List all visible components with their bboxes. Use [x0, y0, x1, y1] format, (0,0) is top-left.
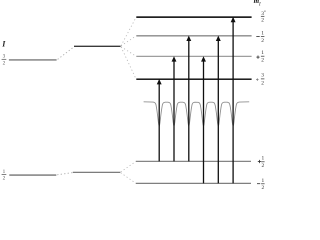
ground level mI=-1/2	[136, 182, 251, 184]
excited unperturbed level	[9, 59, 57, 61]
svg-text:2: 2	[261, 58, 264, 64]
left fraction 3/2 (excited state spin)	[3, 54, 6, 67]
transition arrow 6 (-1/2 to -3/2)	[231, 17, 236, 184]
label +3/2	[261, 73, 264, 87]
svg-text:1: 1	[261, 31, 264, 37]
svg-text:2: 2	[3, 176, 6, 182]
level mI=+3/2	[136, 78, 251, 80]
ground unperturbed level	[9, 174, 56, 176]
fan dash to mI=+1/2 ground	[121, 162, 136, 172]
label +1/2 ground	[261, 155, 264, 169]
sextet spectrum curve	[144, 102, 250, 126]
svg-text:1: 1	[261, 155, 264, 161]
left fraction 1/2 (ground state spin)	[3, 169, 6, 182]
svg-text:2: 2	[261, 18, 264, 24]
dashed shift line (excited isomer shift)	[58, 47, 74, 59]
excited shifted level	[74, 45, 121, 47]
fan dash to mI=-1/2 ground	[121, 173, 136, 184]
transition arrow 5 (-1/2 to -1/2)	[216, 36, 221, 184]
transition arrow 2 (+1/2 to +1/2)	[172, 56, 177, 161]
svg-text:I: I	[258, 2, 261, 7]
svg-text:2: 2	[261, 38, 264, 44]
level mI=+1/2	[136, 55, 251, 57]
svg-text:2: 2	[3, 60, 6, 66]
fan dash to mI=+3/2	[121, 47, 136, 79]
svg-text:2: 2	[261, 163, 264, 169]
svg-text:1: 1	[261, 178, 264, 184]
fraction bar 1/2	[2, 173, 7, 175]
transition arrow 3 (+1/2 to -1/2)	[186, 36, 191, 162]
dashed shift line (ground isomer shift)	[57, 173, 72, 175]
fraction bar 3/2	[2, 58, 7, 60]
transition arrow 1 (+1/2 to +3/2)	[157, 79, 162, 161]
ground shifted level	[73, 171, 121, 173]
svg-text:2: 2	[261, 185, 264, 189]
fan dash to mI=-3/2	[121, 17, 136, 45]
transition arrow 4 (-1/2 to +1/2)	[201, 56, 206, 183]
label -1/2	[261, 31, 264, 44]
fan dash to mI=+1/2	[121, 47, 136, 57]
svg-text:1: 1	[261, 50, 264, 56]
svg-text:I: I	[1, 40, 6, 49]
label -3/2	[261, 11, 264, 24]
label -1/2 ground	[261, 178, 264, 191]
level mI=-1/2	[136, 35, 251, 37]
svg-text:2: 2	[261, 80, 264, 86]
level mI=-3/2	[136, 16, 251, 18]
fan dash to mI=-1/2	[121, 36, 136, 46]
svg-text:3: 3	[3, 54, 6, 60]
label +1/2	[261, 50, 264, 64]
ground level mI=+1/2	[136, 160, 251, 162]
svg-text:3: 3	[261, 73, 264, 79]
